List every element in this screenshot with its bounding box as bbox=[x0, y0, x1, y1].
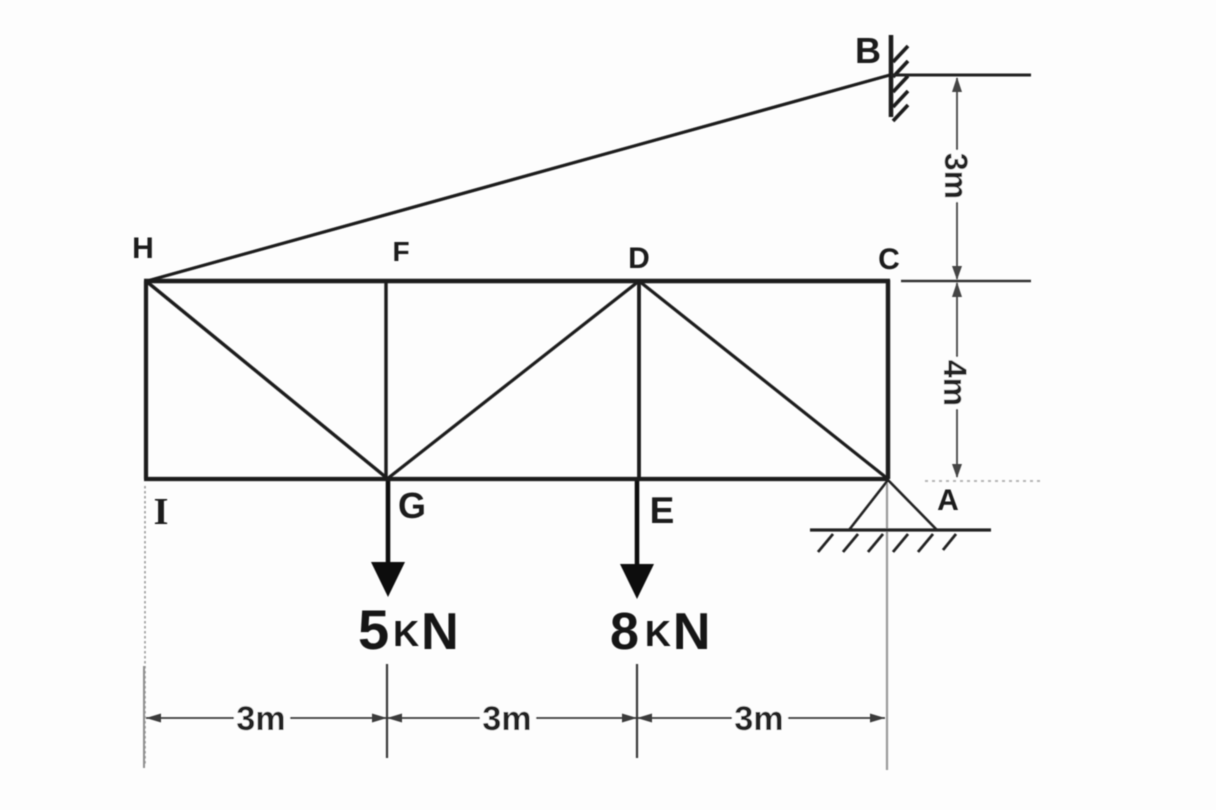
svg-text:4m: 4m bbox=[937, 360, 973, 406]
svg-text:3m: 3m bbox=[938, 153, 974, 199]
svg-text:I: I bbox=[154, 491, 169, 533]
member bottom chord I-G-E-A bbox=[144, 477, 889, 481]
svg-text:8KN: 8KN bbox=[610, 603, 710, 661]
member G-D (diagonal) bbox=[387, 281, 639, 479]
label 3m (left bottom dimension) bbox=[234, 700, 290, 738]
svg-text:H: H bbox=[132, 232, 154, 265]
svg-text:D: D bbox=[628, 242, 650, 275]
svg-text:3m: 3m bbox=[236, 700, 285, 738]
svg-text:B: B bbox=[855, 30, 881, 71]
extension line below node A (gray) bbox=[886, 483, 888, 770]
member H-I bbox=[144, 281, 148, 479]
svg-text:F: F bbox=[392, 236, 409, 267]
hatching below support A bbox=[818, 534, 956, 552]
member C-A bbox=[886, 280, 890, 479]
extension line left of bottom dimension bbox=[143, 666, 145, 768]
vertical dimension line 3m (B to C level) bbox=[952, 77, 962, 280]
member D-E bbox=[637, 281, 641, 479]
extension line below node E bbox=[636, 664, 638, 758]
label 4m (vertical dimension) bbox=[937, 357, 973, 409]
bottom dimension line I-G segment bbox=[146, 714, 387, 723]
extension line below node G bbox=[386, 664, 388, 758]
bottom dimension line E-A segment bbox=[637, 714, 885, 723]
top reference line right of support B bbox=[891, 74, 1031, 77]
member D-A (diagonal) bbox=[639, 281, 888, 479]
label 3m (right bottom dimension) bbox=[732, 700, 788, 738]
dotted reference line at level of node A bbox=[925, 480, 1042, 482]
hatching at support B bbox=[893, 46, 908, 121]
svg-text:G: G bbox=[398, 485, 426, 526]
member H-B (tie) bbox=[147, 75, 890, 281]
svg-text:C: C bbox=[878, 243, 900, 276]
load arrow at G (5 kN) bbox=[371, 481, 405, 597]
svg-text:E: E bbox=[650, 490, 675, 531]
wall line at support B bbox=[889, 35, 894, 117]
svg-text:5KN: 5KN bbox=[358, 598, 459, 661]
member H-G (diagonal) bbox=[146, 281, 388, 479]
vertical dimension line 4m (C to A level) bbox=[952, 282, 962, 478]
member F-G bbox=[384, 281, 387, 479]
extension line below node I (dotted) bbox=[144, 486, 146, 766]
member top chord H-F-D-C bbox=[144, 279, 890, 283]
load arrow at E (8 kN) bbox=[620, 481, 654, 599]
bottom dimension line G-E segment bbox=[387, 714, 637, 723]
svg-text:A: A bbox=[937, 484, 959, 517]
reference line at level of node C bbox=[901, 280, 1031, 282]
label 3m (middle bottom dimension) bbox=[480, 700, 536, 738]
svg-text:3m: 3m bbox=[734, 700, 783, 738]
pin support at node A bbox=[810, 480, 991, 530]
svg-text:3m: 3m bbox=[482, 700, 531, 738]
label 3m (vertical dimension) bbox=[938, 150, 974, 202]
